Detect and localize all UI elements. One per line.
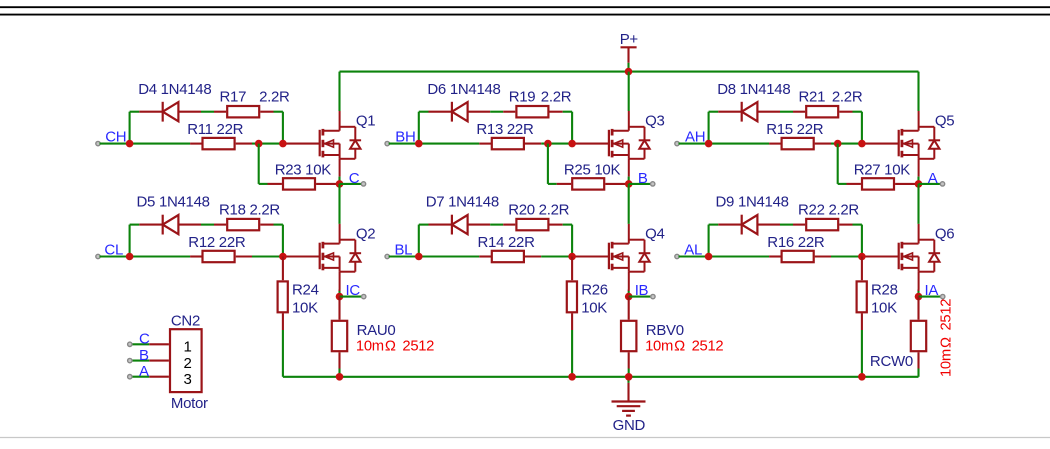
svg-text:Q3: Q3 [645,112,664,129]
svg-text:CL: CL [104,242,123,259]
svg-text:BL: BL [394,242,412,259]
svg-text:2.2R: 2.2R [541,89,572,106]
svg-text:Q4: Q4 [645,225,664,242]
svg-text:R26: R26 [581,281,608,298]
svg-text:3: 3 [183,371,191,388]
svg-text:1: 1 [183,339,191,356]
svg-text:Q6: Q6 [935,225,954,242]
svg-text:IA: IA [925,282,939,299]
svg-text:10m: 10m [645,339,673,355]
svg-text:10m: 10m [356,339,384,355]
svg-text:C: C [139,331,150,348]
svg-text:D6 1N4148: D6 1N4148 [427,81,500,98]
svg-text:R17: R17 [220,89,247,106]
svg-text:Ω: Ω [385,339,396,355]
svg-text:D5 1N4148: D5 1N4148 [137,194,210,211]
svg-text:2.2R: 2.2R [259,89,290,106]
svg-text:CN2: CN2 [171,313,200,330]
svg-text:R21: R21 [799,89,826,106]
svg-text:A: A [139,363,149,380]
svg-text:R12 22R: R12 22R [188,234,246,251]
svg-text:R23 10K: R23 10K [275,162,332,179]
svg-text:R15 22R: R15 22R [766,121,824,138]
svg-text:D8 1N4148: D8 1N4148 [717,81,790,98]
svg-text:2512: 2512 [692,339,724,355]
svg-text:Motor: Motor [171,395,208,412]
svg-text:R16 22R: R16 22R [767,234,825,251]
svg-text:R11 22R: R11 22R [187,121,243,138]
svg-text:C: C [349,170,360,187]
svg-text:P+: P+ [620,31,639,48]
svg-text:RBV0: RBV0 [646,322,684,339]
svg-text:10K: 10K [292,299,318,316]
svg-text:AH: AH [685,129,705,146]
svg-text:D9 1N4148: D9 1N4148 [716,194,789,211]
svg-text:10K: 10K [871,299,897,316]
svg-text:A: A [928,170,938,187]
svg-text:10K: 10K [581,299,607,316]
svg-text:AL: AL [684,242,702,259]
svg-text:R27 10K: R27 10K [854,162,911,179]
svg-text:D7 1N4148: D7 1N4148 [426,194,499,211]
svg-text:R24: R24 [292,281,319,298]
svg-text:2512: 2512 [939,299,955,331]
svg-text:R14 22R: R14 22R [478,234,536,251]
svg-text:BH: BH [395,129,415,146]
svg-text:R20 2.2R: R20 2.2R [508,202,569,219]
svg-text:Q5: Q5 [935,112,954,129]
svg-text:GND: GND [613,417,646,434]
svg-text:R19: R19 [509,89,536,106]
svg-text:R13 22R: R13 22R [476,121,534,138]
svg-text:10m: 10m [939,349,955,377]
svg-text:IB: IB [635,282,649,299]
svg-text:R22 2.2R: R22 2.2R [798,202,859,219]
svg-text:RCW0: RCW0 [870,353,913,370]
svg-text:Q1: Q1 [356,112,375,129]
svg-text:D4 1N4148: D4 1N4148 [138,81,211,98]
svg-text:CH: CH [105,129,126,146]
svg-text:RAU0: RAU0 [357,322,396,339]
svg-text:Ω: Ω [939,337,955,348]
svg-text:R18 2.2R: R18 2.2R [219,202,280,219]
svg-text:Q2: Q2 [356,225,375,242]
svg-text:2.2R: 2.2R [832,89,863,106]
svg-text:IC: IC [346,282,361,299]
svg-text:B: B [139,347,149,364]
svg-text:B: B [638,170,648,187]
svg-text:2: 2 [183,355,191,372]
svg-text:2512: 2512 [402,339,434,355]
svg-text:R28: R28 [871,281,898,298]
svg-text:Ω: Ω [674,339,685,355]
svg-text:R25 10K: R25 10K [564,162,621,179]
